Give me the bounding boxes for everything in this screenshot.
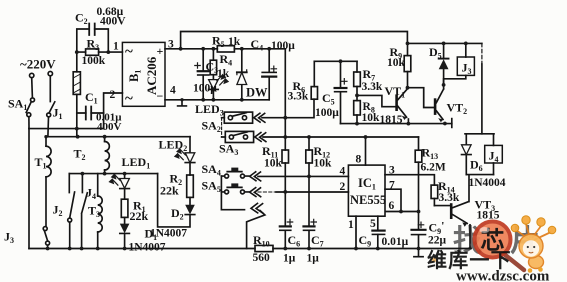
svg-text:2: 2 — [110, 89, 116, 101]
svg-text:10k: 10k — [314, 158, 333, 170]
svg-text:LED1: LED1 — [122, 155, 151, 171]
svg-text:LED2: LED2 — [159, 138, 188, 154]
svg-text:1μ: 1μ — [307, 253, 320, 265]
svg-text:1: 1 — [348, 219, 354, 231]
svg-text:22μ: 22μ — [428, 235, 447, 247]
svg-text:+: + — [157, 44, 164, 58]
svg-text:5: 5 — [370, 218, 376, 230]
svg-text:3.3k: 3.3k — [288, 90, 309, 102]
svg-text:4: 4 — [340, 166, 346, 178]
svg-text:3: 3 — [168, 39, 174, 51]
svg-text:www.dzsc.com: www.dzsc.com — [456, 269, 550, 282]
svg-text:1815: 1815 — [380, 114, 403, 126]
svg-text:6: 6 — [389, 200, 395, 212]
svg-text:22k: 22k — [160, 184, 179, 198]
svg-text:4: 4 — [170, 85, 176, 97]
svg-text:100μ: 100μ — [315, 107, 339, 119]
svg-text:400V: 400V — [97, 121, 122, 133]
svg-text:100k: 100k — [82, 55, 106, 67]
svg-text:3: 3 — [389, 165, 395, 177]
svg-text:1815: 1815 — [477, 210, 500, 222]
svg-text:1μ: 1μ — [283, 253, 296, 265]
svg-text:100μ: 100μ — [193, 83, 217, 95]
svg-text:560: 560 — [253, 252, 271, 264]
svg-text:8: 8 — [356, 154, 362, 166]
svg-text:1k: 1k — [217, 68, 230, 80]
svg-text:2: 2 — [340, 181, 346, 193]
svg-text:10k: 10k — [264, 158, 283, 170]
svg-text:7: 7 — [389, 180, 395, 192]
svg-text:1k: 1k — [228, 36, 241, 48]
svg-text:1: 1 — [113, 41, 119, 53]
svg-text:−: − — [157, 89, 164, 103]
svg-text:0.01μ: 0.01μ — [382, 236, 409, 248]
svg-text:1N4007: 1N4007 — [129, 242, 166, 254]
svg-text:22k: 22k — [130, 209, 149, 223]
svg-text:LED3: LED3 — [195, 102, 224, 118]
svg-text:100μ: 100μ — [271, 40, 295, 52]
svg-text:3.3k: 3.3k — [439, 192, 460, 204]
svg-text:10k: 10k — [387, 57, 406, 69]
svg-text:~: ~ — [125, 91, 133, 107]
svg-text:6.2M: 6.2M — [421, 162, 446, 174]
svg-text:400V: 400V — [100, 16, 126, 28]
svg-text:3.3k: 3.3k — [362, 81, 383, 93]
svg-text:~: ~ — [125, 44, 133, 60]
svg-text:1N4007: 1N4007 — [150, 228, 187, 240]
svg-text:1N4004: 1N4004 — [469, 177, 506, 189]
svg-text:~220V: ~220V — [20, 57, 56, 72]
svg-text:10k: 10k — [362, 112, 381, 124]
svg-text:NE555: NE555 — [350, 193, 386, 207]
svg-text:DW: DW — [246, 86, 268, 100]
